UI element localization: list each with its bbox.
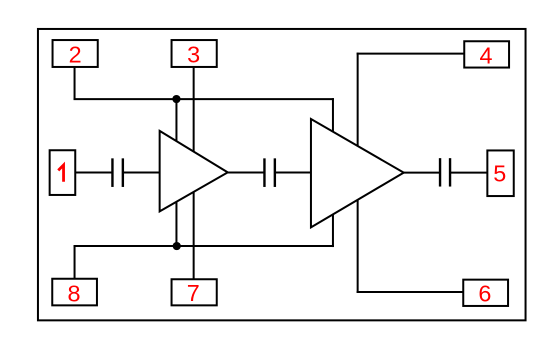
capacitor C2 [264,158,274,187]
wire pin8 rise from box 8 [74,245,76,278]
wire capacitor C2 to amplifier A2 input [275,172,312,174]
wire net8 rise to amplifier A2 bottom slope [332,209,334,247]
pin box 4 [464,41,509,67]
pin label 1 [58,165,63,182]
pin box 1 [50,150,76,195]
wire net8 horizontal bus bottom [74,245,334,247]
wire net2 horizontal bus top [74,98,334,100]
pin box 7 [172,279,217,305]
svg-text:3: 3 [187,42,200,68]
svg-text:8: 8 [67,280,80,306]
IC package outline [38,29,526,320]
wire pin3 drop to amplifier A1 top slope [193,67,195,155]
wire pin4 horizontal [357,53,465,55]
wire pin1 to capacitor C1 [75,172,112,174]
pin box 8 [52,279,97,306]
svg-text:6: 6 [478,281,491,307]
svg-text:7: 7 [187,280,200,306]
wire net8 rise from junction to amplifier A1 bottom slope [175,197,177,246]
wire pin6 rise to amplifier A2 bottom slope [357,195,359,293]
wire net2 drop from junction to amplifier A1 top slope [175,99,177,145]
pin box 3 [172,40,217,67]
wire capacitor C1 to amplifier A1 input [123,172,161,174]
pin box 6 [463,280,508,306]
svg-text:2: 2 [69,42,82,68]
junction node bottom [173,242,181,250]
svg-text:4: 4 [479,43,492,69]
svg-text:5: 5 [493,161,506,187]
wire pin4 drop to amplifier A2 top slope [357,53,359,150]
wire amplifier A1 output to capacitor C2 [227,172,265,174]
pin box 2 [53,40,98,67]
wire net2 drop to amplifier A2 top slope [332,98,334,136]
pin box 5 [487,150,513,196]
wire pin7 rise to amplifier A1 bottom slope [193,187,195,279]
amplifier A2 [311,119,404,227]
capacitor C1 [112,158,122,187]
junction node top [172,95,180,103]
capacitor C3 [440,158,450,186]
wire amplifier A2 output to capacitor C3 [403,172,440,174]
wire pin2 vertical drop from box 2 [74,67,76,100]
amplifier A1 [160,131,228,212]
wire capacitor C3 to pin 5 [450,172,487,174]
wire pin6 horizontal [357,291,464,293]
